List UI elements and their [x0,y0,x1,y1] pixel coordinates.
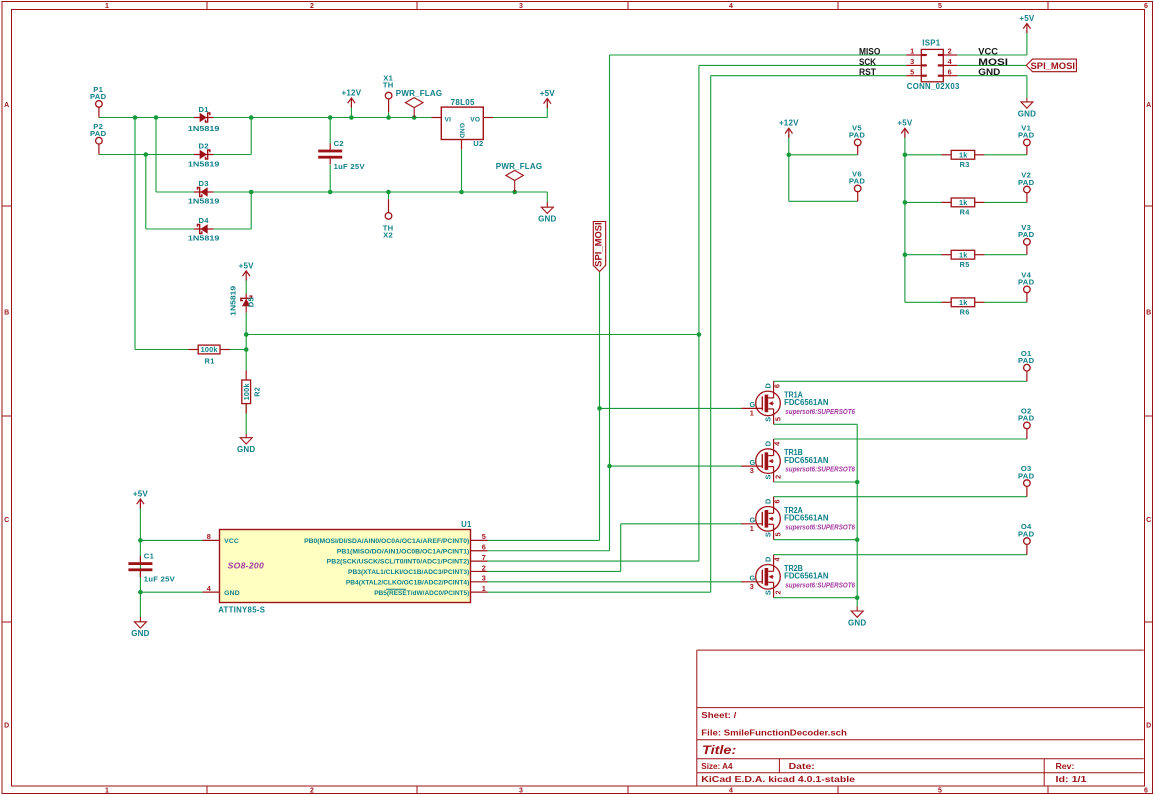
svg-text:FDC6561AN: FDC6561AN [784,398,829,407]
svg-text:PAD: PAD [1018,471,1035,480]
svg-text:VO: VO [470,116,480,123]
svg-text:PWR_FLAG: PWR_FLAG [396,89,443,98]
svg-text:PB0(MOSI/DI/SDA/AIN0/OC0A/OC1A: PB0(MOSI/DI/SDA/AIN0/OC0A/OC1A/AREF/PCIN… [304,538,469,545]
svg-text:R1: R1 [205,356,215,365]
svg-text:RST: RST [859,67,876,78]
svg-text:SPI_MOSI: SPI_MOSI [594,222,604,267]
svg-text:+5V: +5V [239,261,255,270]
svg-text:100k: 100k [242,383,251,401]
svg-text:GND: GND [237,445,255,454]
svg-text:S: S [764,417,773,422]
svg-text:supersot6:SUPERSOT6: supersot6:SUPERSOT6 [785,580,855,589]
svg-text:PAD: PAD [849,177,866,186]
svg-text:6: 6 [1144,3,1148,10]
svg-text:2: 2 [774,475,783,479]
svg-text:SPI_MOSI: SPI_MOSI [1031,61,1076,71]
svg-text:1N5819: 1N5819 [188,234,219,243]
svg-text:C: C [1146,517,1151,524]
svg-text:VCC: VCC [224,538,239,545]
svg-text:PB4(XTAL2/CLKO/OC1B/ADC2/PCINT: PB4(XTAL2/CLKO/OC1B/ADC2/PCINT4) [346,579,469,586]
svg-text:2: 2 [482,563,486,572]
svg-text:3: 3 [910,57,914,66]
svg-text:1: 1 [750,409,754,418]
svg-text:6: 6 [948,67,952,76]
svg-text:1k: 1k [959,250,968,259]
svg-text:GND: GND [848,618,866,627]
svg-text:D: D [763,383,772,388]
svg-text:1: 1 [482,584,486,593]
svg-text:B: B [4,310,9,317]
svg-text:6: 6 [773,499,782,503]
svg-text:Title:: Title: [702,745,737,757]
svg-text:3: 3 [750,466,754,475]
svg-text:R2: R2 [252,387,261,397]
svg-text:PAD: PAD [1018,278,1035,287]
svg-text:D2: D2 [198,142,208,151]
svg-text:ATTINY85-S: ATTINY85-S [218,605,265,614]
svg-text:S: S [764,532,773,537]
svg-text:+5V: +5V [133,489,149,498]
svg-text:Size: A4: Size: A4 [701,761,732,771]
svg-text:1: 1 [105,787,109,794]
svg-text:GND: GND [131,629,149,638]
svg-text:1k: 1k [959,150,968,159]
svg-text:+5V: +5V [897,119,913,128]
svg-text:A: A [4,102,9,109]
svg-text:PAD: PAD [1018,230,1035,239]
svg-text:2: 2 [774,590,783,594]
svg-text:File: SmileFunctionDecoder.sch: File: SmileFunctionDecoder.sch [701,727,847,737]
svg-text:7: 7 [482,553,486,562]
svg-text:SO8-200: SO8-200 [228,560,265,570]
svg-text:supersot6:SUPERSOT6: supersot6:SUPERSOT6 [785,465,855,474]
svg-text:supersot6:SUPERSOT6: supersot6:SUPERSOT6 [785,522,855,531]
svg-text:PAD: PAD [1018,356,1035,365]
svg-text:1: 1 [105,3,109,10]
svg-text:C1: C1 [144,552,155,561]
svg-text:+12V: +12V [342,88,362,97]
svg-text:1: 1 [910,47,914,56]
svg-text:2: 2 [310,3,314,10]
svg-text:C2: C2 [334,139,344,148]
svg-text:Date:: Date: [789,761,815,771]
svg-text:1: 1 [750,524,754,533]
svg-text:4: 4 [729,3,733,10]
svg-text:Id: 1/1: Id: 1/1 [1056,774,1087,784]
svg-text:Sheet: /: Sheet: / [701,710,737,720]
svg-text:100k: 100k [201,345,219,354]
svg-text:6: 6 [773,384,782,388]
svg-text:D: D [763,499,772,504]
svg-text:+5V: +5V [540,89,556,98]
svg-text:KiCad E.D.A. kicad 4.0.1-stab: KiCad E.D.A. kicad 4.0.1-stable [701,774,855,784]
svg-text:D: D [763,441,772,446]
svg-text:PB2(SCK/USCK/SCL/T0/INT0/ADC1/: PB2(SCK/USCK/SCL/T0/INT0/ADC1/PCINT2) [327,559,470,566]
svg-text:U2: U2 [473,139,483,148]
svg-text:R3: R3 [960,160,970,169]
svg-text:6: 6 [482,543,486,552]
svg-text:3: 3 [519,787,523,794]
svg-text:5: 5 [938,3,942,10]
svg-text:R5: R5 [960,260,970,269]
svg-text:GND: GND [458,123,465,138]
svg-text:PAD: PAD [90,129,107,138]
svg-text:5: 5 [938,787,942,794]
svg-text:PAD: PAD [1018,178,1035,187]
svg-text:1k: 1k [959,198,968,207]
svg-text:TH: TH [383,81,394,90]
svg-text:4: 4 [729,787,733,794]
svg-text:78L05: 78L05 [451,98,475,107]
svg-text:PB1(MISO/DO/AIN1/OC0B/OC1A/PCI: PB1(MISO/DO/AIN1/OC0B/OC1A/PCINT1) [337,548,470,555]
svg-text:1uF 25V: 1uF 25V [334,162,366,171]
svg-text:D: D [763,557,772,562]
svg-text:2: 2 [948,47,952,56]
svg-text:A: A [1146,102,1151,109]
svg-text:1N5819: 1N5819 [188,124,219,133]
svg-text:FDC6561AN: FDC6561AN [784,514,829,523]
svg-text:5: 5 [774,417,783,421]
svg-text:PWR_FLAG: PWR_FLAG [496,162,543,171]
svg-text:GND: GND [978,67,1000,78]
svg-text:FDC6561AN: FDC6561AN [784,456,829,465]
svg-text:GND: GND [224,590,240,597]
svg-text:ISP1: ISP1 [922,39,940,48]
svg-text:Rev:: Rev: [1056,761,1075,771]
svg-text:6: 6 [1144,787,1148,794]
svg-text:D1: D1 [198,105,209,114]
svg-text:PAD: PAD [1018,414,1035,423]
svg-text:8: 8 [207,532,211,541]
svg-text:PAD: PAD [1018,131,1035,140]
svg-text:1N5819: 1N5819 [188,197,219,206]
svg-text:+12V: +12V [779,119,799,128]
svg-text:5: 5 [910,67,914,76]
svg-text:B: B [1146,310,1151,317]
svg-text:D4: D4 [198,216,209,225]
svg-text:5: 5 [482,532,486,541]
svg-text:S: S [764,474,773,479]
svg-text:VI: VI [445,116,452,123]
svg-text:D5: D5 [247,296,256,307]
svg-text:1uF 25V: 1uF 25V [144,575,176,584]
svg-text:S: S [764,590,773,595]
svg-text:5: 5 [774,532,783,536]
svg-text:U1: U1 [461,520,472,529]
svg-text:GND: GND [1018,109,1036,118]
svg-text:PAD: PAD [1018,529,1035,538]
svg-text:VCC: VCC [978,46,998,57]
svg-text:2: 2 [310,787,314,794]
svg-text:PAD: PAD [849,131,866,140]
svg-text:+5V: +5V [1019,14,1035,23]
svg-text:1N5819: 1N5819 [188,160,219,169]
svg-text:X2: X2 [383,231,393,240]
svg-text:3: 3 [482,574,486,583]
svg-text:D: D [4,723,9,730]
svg-text:1N5819: 1N5819 [229,286,238,316]
svg-text:D3: D3 [198,179,208,188]
svg-text:1k: 1k [959,298,968,307]
svg-text:CONN_02X03: CONN_02X03 [907,82,960,91]
svg-text:C: C [4,517,9,524]
svg-text:D: D [1146,723,1151,730]
svg-text:PB5(RESET/dW/ADC0/PCINT5): PB5(RESET/dW/ADC0/PCINT5) [374,590,469,597]
svg-text:FDC6561AN: FDC6561AN [784,572,829,581]
svg-text:MISO: MISO [859,46,881,57]
svg-text:3: 3 [519,3,523,10]
svg-text:3: 3 [750,582,754,591]
svg-text:PAD: PAD [90,92,107,101]
svg-text:GND: GND [538,215,556,224]
svg-text:PB3(XTAL1/CLKI/OC1B/ADC3/PCINT: PB3(XTAL1/CLKI/OC1B/ADC3/PCINT3) [348,569,469,576]
svg-text:R4: R4 [960,208,971,217]
svg-text:supersot6:SUPERSOT6: supersot6:SUPERSOT6 [785,407,855,416]
svg-text:R6: R6 [960,308,970,317]
